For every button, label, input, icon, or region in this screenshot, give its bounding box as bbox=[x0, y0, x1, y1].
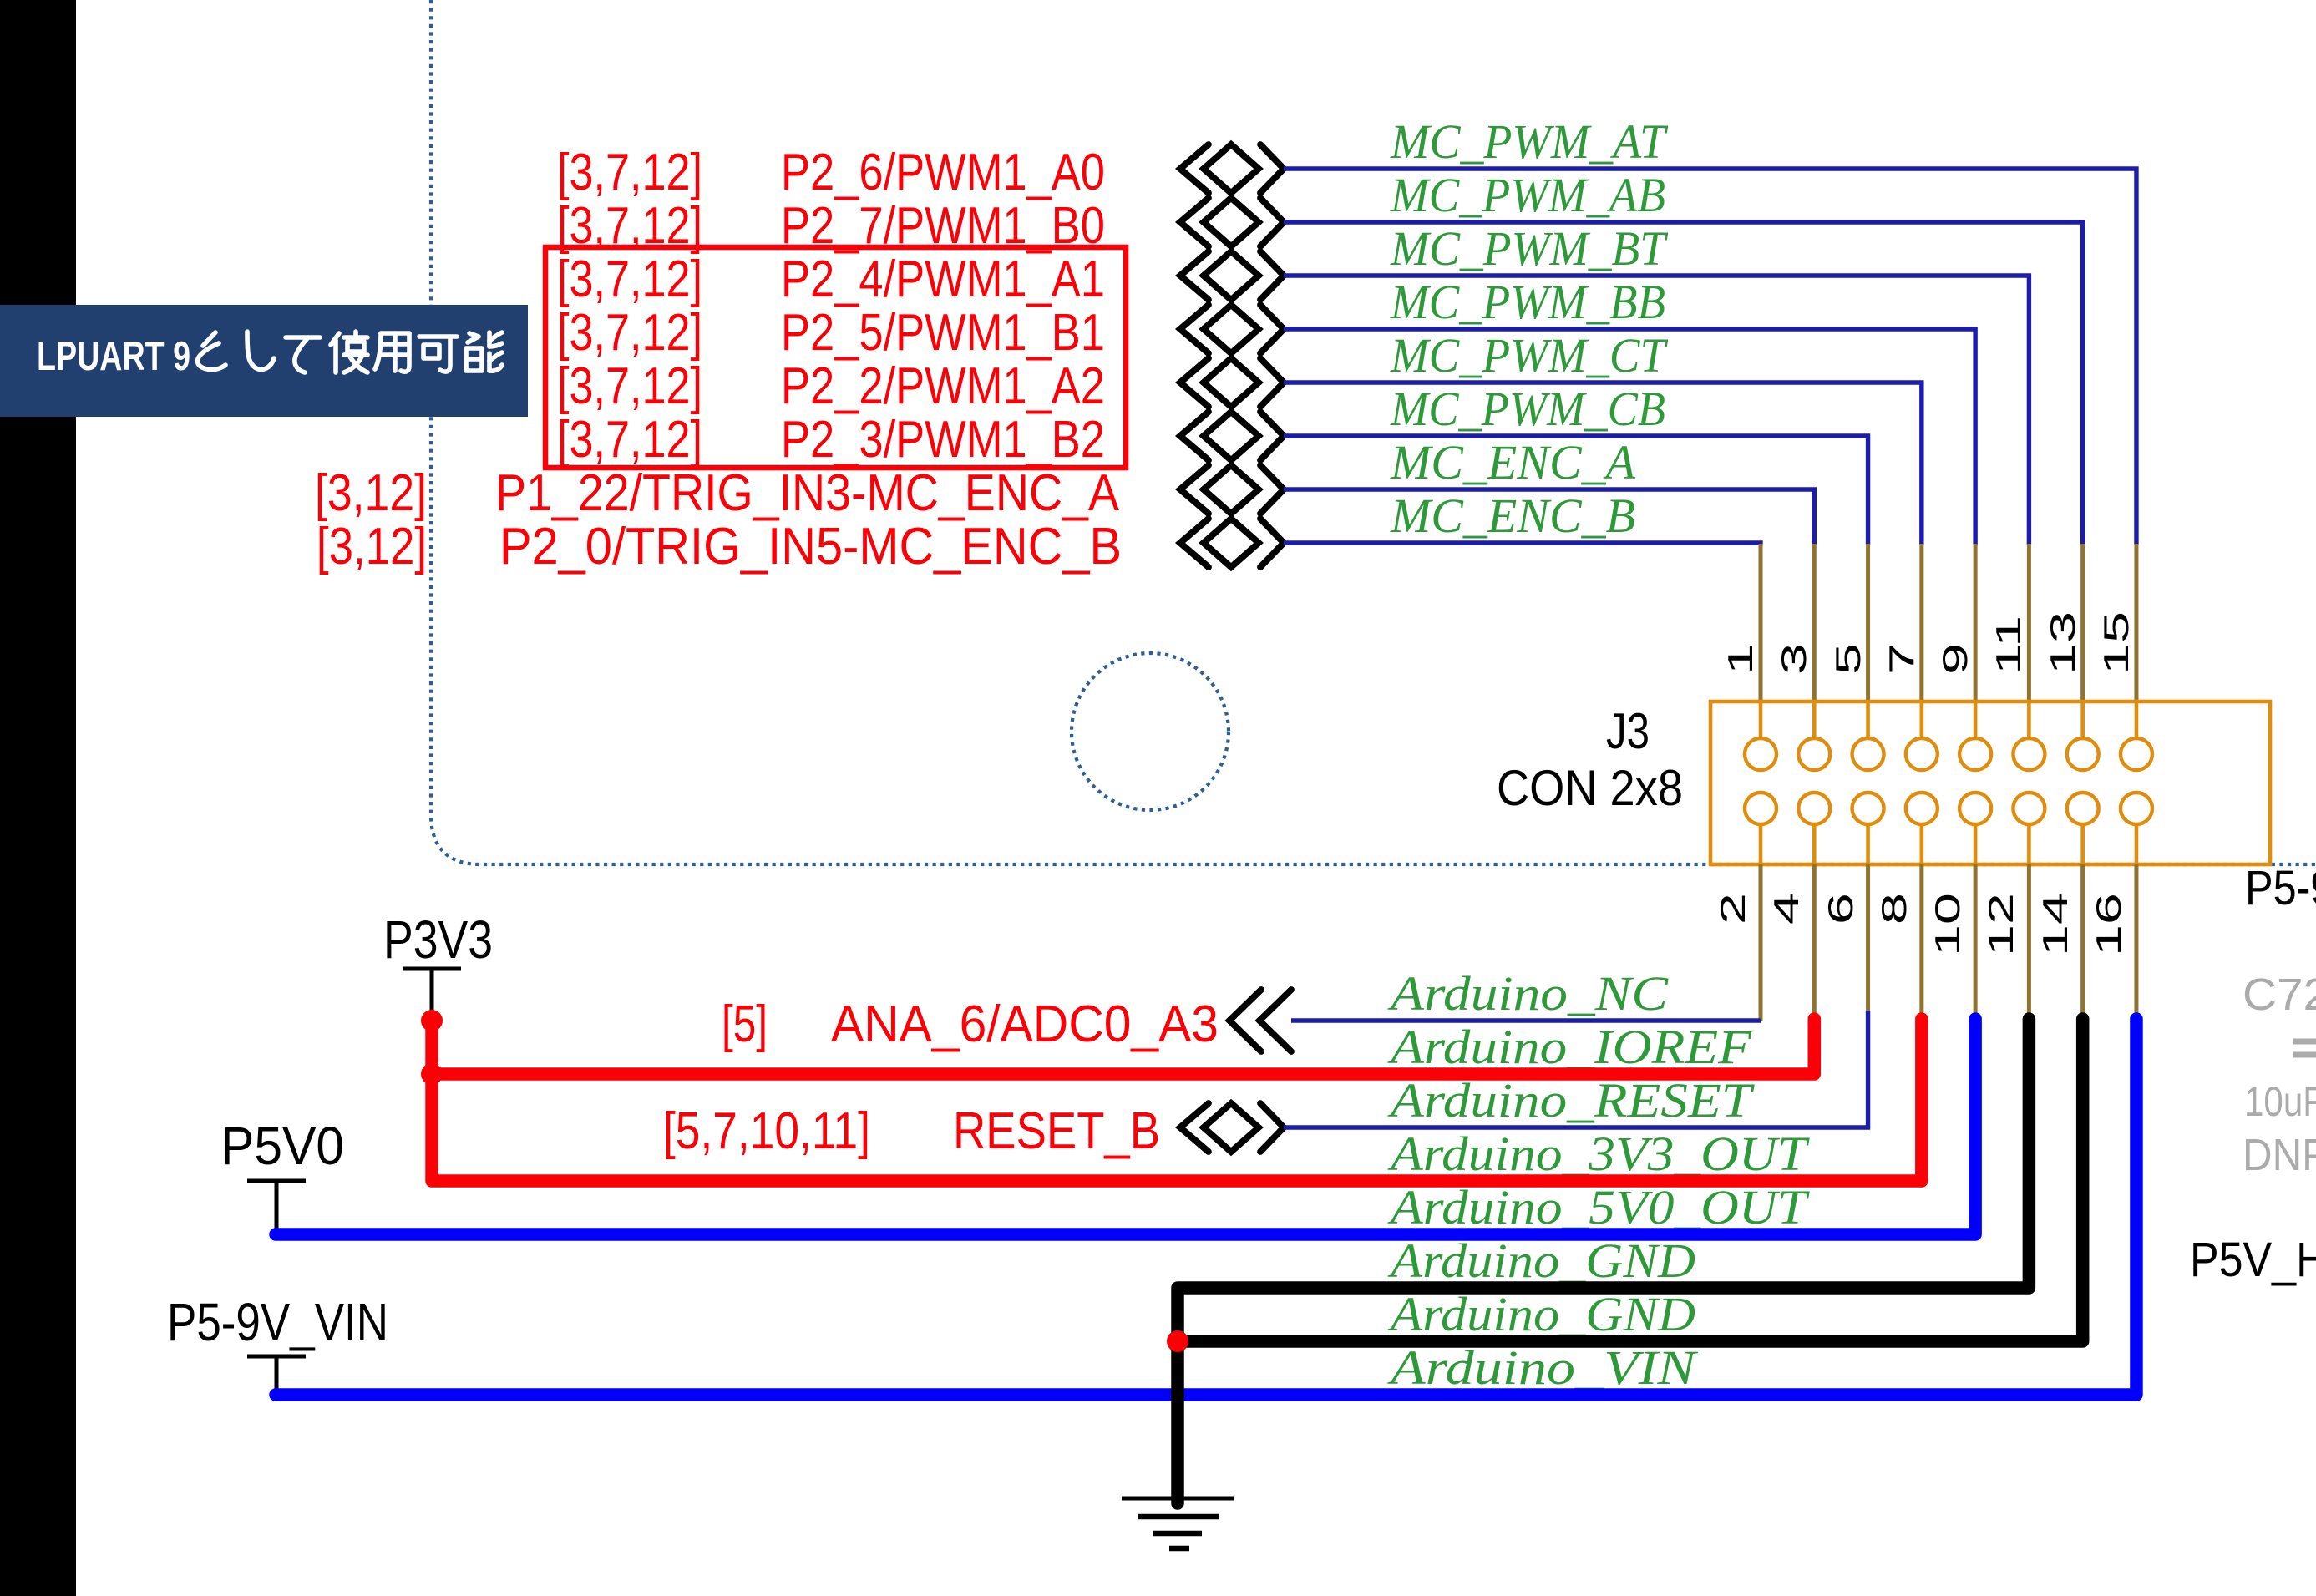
svg-text:J3: J3 bbox=[1606, 703, 1650, 759]
off-page connector MC_PWM_CT bbox=[1180, 358, 1284, 407]
J3 pin 6 circle bbox=[1852, 793, 1884, 824]
left black sidebar bbox=[0, 0, 76, 1596]
svg-text:[3,12]: [3,12] bbox=[315, 464, 427, 522]
sheet boundary dotted line bbox=[431, 0, 2316, 864]
connector J3 body bbox=[1710, 702, 2270, 864]
wire Arduino_VIN (blue bus) bbox=[276, 1019, 2136, 1395]
svg-text:P2_5/PWM1_B1: P2_5/PWM1_B1 bbox=[781, 304, 1105, 362]
svg-text:P3V3: P3V3 bbox=[383, 909, 493, 970]
J3 pin 12 circle bbox=[2013, 793, 2045, 824]
svg-text:[3,7,12]: [3,7,12] bbox=[557, 411, 702, 469]
svg-text:[5,7,10,11]: [5,7,10,11] bbox=[663, 1102, 870, 1160]
svg-text:7: 7 bbox=[1883, 643, 1921, 675]
svg-text:MC_ENC_B: MC_ENC_B bbox=[1390, 489, 1635, 543]
svg-text:4: 4 bbox=[1767, 893, 1806, 925]
svg-text:P5-9V_VIN: P5-9V_VIN bbox=[167, 1292, 388, 1352]
connector pin stubs (even pins, tan) bbox=[1759, 864, 1763, 1021]
J3 pin 15 circle bbox=[2135, 702, 2139, 738]
svg-text:14: 14 bbox=[2036, 893, 2075, 956]
svg-text:[3,12]: [3,12] bbox=[317, 518, 427, 575]
svg-text:P2_6/PWM1_A0: P2_6/PWM1_A0 bbox=[781, 144, 1105, 201]
J3 pin 10 circle bbox=[1959, 793, 1991, 824]
svg-text:1: 1 bbox=[1721, 643, 1760, 675]
svg-text:P1_22/TRIG_IN3-MC_ENC_A: P1_22/TRIG_IN3-MC_ENC_A bbox=[495, 464, 1120, 522]
off-page connector MC_ENC_B bbox=[1180, 519, 1284, 567]
wire Arduino_RESET bbox=[1284, 1011, 1868, 1127]
svg-text:DNP: DNP bbox=[2243, 1130, 2316, 1180]
wire MC_PWM_AB bbox=[1284, 222, 2083, 545]
off-page connector MC_PWM_AB bbox=[1180, 198, 1284, 246]
red highlight rectangle bbox=[545, 247, 1126, 468]
J3 pin 1 circle bbox=[1759, 702, 1763, 738]
svg-text:Arduino_RESET: Arduino_RESET bbox=[1387, 1073, 1756, 1127]
svg-text:Arduino_VIN: Arduino_VIN bbox=[1386, 1340, 1699, 1395]
svg-text:Arduino_GND: Arduino_GND bbox=[1387, 1234, 1695, 1288]
off-page connector MC_PWM_AT bbox=[1180, 144, 1284, 193]
J3 pin 8 circle bbox=[1906, 793, 1938, 824]
J3 pin 7 circle bbox=[1920, 702, 1924, 738]
svg-text:Arduino_IOREF: Arduino_IOREF bbox=[1387, 1020, 1752, 1074]
svg-text:MC_PWM_BB: MC_PWM_BB bbox=[1390, 275, 1665, 329]
wire MC_ENC_A bbox=[1284, 489, 1814, 545]
wire Arduino_NC bbox=[1291, 1018, 1761, 1022]
J3 pin 9 circle bbox=[1974, 702, 1978, 738]
wire MC_PWM_AT bbox=[1284, 169, 2136, 545]
svg-text:2: 2 bbox=[1714, 893, 1752, 925]
svg-text:P2_0/TRIG_IN5-MC_ENC_B: P2_0/TRIG_IN5-MC_ENC_B bbox=[499, 518, 1122, 575]
J3 pin 3 circle bbox=[1812, 702, 1817, 738]
svg-text:P5-9V: P5-9V bbox=[2245, 861, 2316, 915]
svg-text:P2_4/PWM1_A1: P2_4/PWM1_A1 bbox=[781, 251, 1105, 308]
off-page connector ANA_6 (input chevrons) bbox=[1229, 990, 1291, 1051]
J3 pin 16 circle bbox=[2121, 793, 2152, 824]
svg-text:9: 9 bbox=[1936, 643, 1974, 675]
svg-text:MC_PWM_CT: MC_PWM_CT bbox=[1390, 328, 1668, 383]
svg-text:15: 15 bbox=[2097, 611, 2136, 675]
svg-text:13: 13 bbox=[2044, 611, 2082, 675]
svg-text:Arduino_5V0_OUT: Arduino_5V0_OUT bbox=[1387, 1180, 1810, 1234]
wire MC_ENC_B bbox=[1284, 543, 1761, 545]
svg-text:[3,7,12]: [3,7,12] bbox=[557, 251, 702, 308]
wire Arduino_GND pin14 (black bus) bbox=[1178, 1019, 2083, 1341]
svg-text:Arduino_3V3_OUT: Arduino_3V3_OUT bbox=[1387, 1127, 1810, 1181]
svg-text:MC_PWM_CB: MC_PWM_CB bbox=[1390, 382, 1665, 436]
ground bbox=[1122, 1498, 1234, 1548]
annotation text (kanji, drawn) bbox=[198, 332, 226, 370]
svg-text:10: 10 bbox=[1928, 893, 1967, 956]
svg-text:MC_ENC_A: MC_ENC_A bbox=[1390, 435, 1636, 489]
svg-text:16: 16 bbox=[2090, 893, 2128, 956]
off-page connector MC_PWM_BT bbox=[1180, 251, 1284, 300]
J3 pin 13 circle bbox=[2080, 702, 2085, 738]
svg-text:P2_3/PWM1_B2: P2_3/PWM1_B2 bbox=[781, 411, 1105, 469]
svg-text:P5V0: P5V0 bbox=[220, 1116, 344, 1176]
svg-text:Arduino_NC: Arduino_NC bbox=[1386, 966, 1669, 1021]
svg-text:8: 8 bbox=[1875, 893, 1913, 925]
svg-text:P2_2/PWM1_A2: P2_2/PWM1_A2 bbox=[781, 357, 1105, 415]
svg-text:MC_PWM_AB: MC_PWM_AB bbox=[1390, 168, 1665, 222]
J3 pin 5 circle bbox=[1866, 702, 1870, 738]
J3 pin 14 circle bbox=[2067, 793, 2099, 824]
wire Arduino_IOREF (red bus) bbox=[432, 1019, 1814, 1074]
svg-text:Arduino_GND: Arduino_GND bbox=[1387, 1287, 1695, 1341]
svg-text:5: 5 bbox=[1829, 643, 1867, 675]
junction dot P3V3/IOREF bbox=[421, 1063, 443, 1085]
svg-text:[3,7,12]: [3,7,12] bbox=[557, 144, 702, 201]
svg-text:[3,7,12]: [3,7,12] bbox=[557, 304, 702, 362]
wire P3V3 / Arduino_3V3_OUT (red bus) bbox=[432, 1019, 1922, 1181]
svg-text:P5V_HO: P5V_HO bbox=[2190, 1233, 2316, 1287]
off-page connector MC_PWM_BB bbox=[1180, 305, 1284, 353]
wire Arduino_GND pin12 (black bus) bbox=[1178, 1019, 2029, 1503]
annotation callout box LPUART9 bbox=[0, 305, 528, 417]
svg-text:ANA_6/ADC0_A3: ANA_6/ADC0_A3 bbox=[831, 996, 1219, 1053]
junction dot P3V3 top bbox=[421, 1010, 443, 1031]
wire MC_PWM_CT bbox=[1284, 383, 1922, 545]
svg-text:RESET_B: RESET_B bbox=[953, 1102, 1160, 1160]
wire MC_PWM_CB bbox=[1284, 436, 1868, 545]
connector pin stubs (odd pins, tan) bbox=[1759, 544, 1763, 702]
wire Arduino_5V0_OUT (blue bus) bbox=[276, 1019, 1975, 1234]
svg-text:10uF: 10uF bbox=[2244, 1078, 2316, 1125]
off-page connector RESET_B (bidirectional) bbox=[1180, 1103, 1284, 1152]
wire MC_PWM_BT bbox=[1284, 276, 2029, 545]
junction dot GND bbox=[1167, 1330, 1188, 1352]
wire MC_PWM_BB bbox=[1284, 329, 1975, 545]
dotted circle (mounting hole outline) bbox=[1072, 653, 1229, 810]
off-page connector MC_PWM_CB bbox=[1180, 412, 1284, 460]
svg-text:12: 12 bbox=[1982, 893, 2020, 956]
svg-text:[3,7,12]: [3,7,12] bbox=[557, 357, 702, 415]
svg-text:C72: C72 bbox=[2243, 970, 2316, 1020]
J3 pin 4 circle bbox=[1798, 793, 1830, 824]
svg-text:11: 11 bbox=[1989, 616, 2028, 675]
svg-text:6: 6 bbox=[1822, 893, 1860, 925]
svg-text:CON 2x8: CON 2x8 bbox=[1497, 760, 1683, 816]
off-page connector MC_ENC_A bbox=[1180, 465, 1284, 514]
svg-text:[5]: [5] bbox=[722, 996, 768, 1053]
svg-text:3: 3 bbox=[1775, 643, 1813, 675]
svg-text:LPUART 9: LPUART 9 bbox=[37, 334, 190, 379]
svg-text:MC_PWM_AT: MC_PWM_AT bbox=[1390, 114, 1669, 169]
J3 pin 11 circle bbox=[2027, 702, 2031, 738]
J3 pin 2 circle bbox=[1745, 793, 1776, 824]
svg-text:MC_PWM_BT: MC_PWM_BT bbox=[1390, 221, 1669, 276]
